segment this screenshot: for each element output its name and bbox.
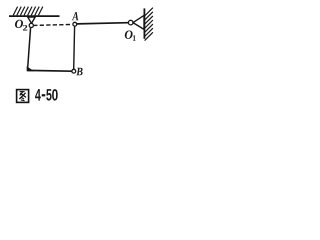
label O1: subscript 1 <box>133 35 136 41</box>
label O2: letter O <box>15 20 23 28</box>
bottom horizontal bar to B <box>27 69 72 72</box>
wall hatching (right) <box>145 8 153 41</box>
rod A to O1 <box>77 23 129 24</box>
pivot bracket O1: wall triangle <box>133 15 144 29</box>
bottom-left corner fillet <box>27 66 35 71</box>
caption digit 5 <box>46 89 51 101</box>
label A <box>72 12 79 20</box>
left vertical bar from O2 down <box>28 27 31 68</box>
pivot bracket O2: hanging triangle <box>28 17 36 23</box>
ceiling line <box>9 15 60 17</box>
wall line (right) <box>143 8 145 38</box>
dashed line O2 to A <box>33 24 70 27</box>
label O2: subscript 2 <box>23 25 27 31</box>
pin circle O1 <box>128 20 133 25</box>
right vertical bar A down to B <box>73 26 76 69</box>
ceiling hatching (top-left) <box>13 7 43 16</box>
pin circle O2 <box>29 23 33 27</box>
pin circle A <box>73 22 77 26</box>
caption character TU (hand-drawn box glyph) <box>17 90 29 103</box>
label O1: letter O <box>125 31 133 39</box>
pin circle B <box>72 69 76 73</box>
label B <box>76 68 82 76</box>
caption hyphen <box>42 94 46 96</box>
caption digit 0 <box>52 89 58 101</box>
caption digit 4 <box>35 89 41 101</box>
